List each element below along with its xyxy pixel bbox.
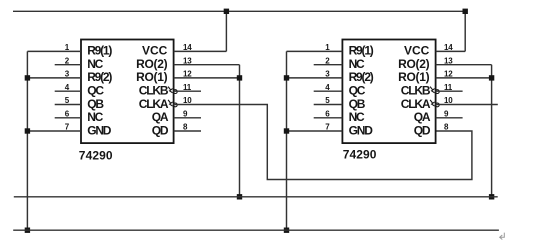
IC U1 74290 body xyxy=(81,40,174,144)
svg-text:QB: QB xyxy=(349,97,366,111)
wire U1 pin 6 NC stub xyxy=(55,117,81,119)
svg-text:VCC: VCC xyxy=(142,44,168,58)
wire U1 pin 5 QB stub xyxy=(55,104,81,106)
wire U1 pin 1 R9(1) xyxy=(27,50,81,52)
wire U2 pin10 CLKA stub xyxy=(436,104,498,106)
wire U2 pin 4 QC stub xyxy=(314,90,343,92)
svg-text:VCC: VCC xyxy=(404,44,430,58)
IC U2 74290 body xyxy=(342,40,435,144)
wire U1 pin12 RO(1) xyxy=(174,77,240,79)
wire U2 pin 6 NC stub xyxy=(314,117,343,119)
wire U1 left bus (R9/GND net) x=27.4 xyxy=(26,51,28,230)
wire U1 pin 8 stub xyxy=(174,130,201,132)
svg-text:CLKB: CLKB xyxy=(139,84,169,98)
wire U2 QD pin8 to U1 CLKA pin10 xyxy=(174,105,472,180)
svg-text:NC: NC xyxy=(87,110,103,124)
wire U1 pin 4 QC stub xyxy=(55,90,81,92)
svg-text:NC: NC xyxy=(87,57,103,71)
svg-text:74290: 74290 xyxy=(343,148,377,162)
wire U2 pin12 RO(1) xyxy=(436,77,492,79)
svg-text:QA: QA xyxy=(414,110,431,124)
wire U1 pin 9 stub xyxy=(174,117,201,119)
svg-text:QB: QB xyxy=(87,97,104,111)
wire U1 pin14 VCC stub xyxy=(174,50,227,52)
svg-text:QC: QC xyxy=(87,84,104,98)
svg-text:R9(2): R9(2) xyxy=(349,70,374,84)
U1 clock wedge pin 11 xyxy=(168,87,177,94)
wire U2 pin 2 NC stub xyxy=(314,64,343,66)
wire U2 pin 1 R9(1) xyxy=(287,50,343,52)
wire U2 VCC riser xyxy=(464,11,466,51)
svg-text:74290: 74290 xyxy=(79,149,113,163)
wire U2 left bus (R9/GND net) x=286.5 xyxy=(286,51,288,230)
svg-text:R9(1): R9(1) xyxy=(349,44,374,58)
U2 clock wedge pin 11 xyxy=(430,87,439,94)
wire U2 pin 3 R9(2) xyxy=(287,77,343,79)
U1 clock wedge pin 10 xyxy=(168,100,177,107)
wire reset rail (RO bus) xyxy=(14,196,498,198)
junction U2 pin12 to RO drop xyxy=(489,75,494,80)
wire U2 pin 5 QB stub xyxy=(314,104,343,106)
svg-text:R9(1): R9(1) xyxy=(87,44,112,58)
svg-text:GND: GND xyxy=(349,123,374,137)
junction U1 pin12 to RO drop xyxy=(237,75,242,80)
junction U1 pin3 on bus xyxy=(25,75,30,80)
junction U2 pin3 on bus xyxy=(284,75,289,80)
junction U2 bus to ground rail xyxy=(284,228,289,233)
wire U1 pin 3 R9(2) xyxy=(27,77,81,79)
junction U1 pin7 on bus xyxy=(25,128,30,133)
svg-text:RO(2): RO(2) xyxy=(398,57,429,71)
wire U2 pin13 RO(2) xyxy=(436,64,492,66)
svg-text:CLKB: CLKB xyxy=(401,84,431,98)
svg-text:NC: NC xyxy=(349,110,365,124)
junction U1 RO drop to reset rail xyxy=(237,194,242,199)
wire U1 pin 7 GND xyxy=(27,130,81,132)
junction U1 bus to ground rail xyxy=(25,228,30,233)
svg-text:RO(2): RO(2) xyxy=(136,57,167,71)
wire U1 pin 11 stub xyxy=(174,90,201,92)
junction U2 pin7 on bus xyxy=(284,128,289,133)
svg-text:QC: QC xyxy=(349,84,366,98)
svg-text:RO(1): RO(1) xyxy=(136,70,167,84)
VCC top bus xyxy=(13,10,465,12)
svg-text:NC: NC xyxy=(349,57,365,71)
wire U2 pin 7 GND xyxy=(287,130,343,132)
svg-text:QD: QD xyxy=(414,123,431,137)
svg-text:R9(2): R9(2) xyxy=(87,70,112,84)
paragraph return mark xyxy=(500,233,505,240)
svg-text:RO(1): RO(1) xyxy=(398,70,429,84)
wire U1 RO net drop xyxy=(239,65,241,197)
wire U2 pin 9 stub xyxy=(436,117,463,119)
wire ground rail (R9/GND bus) xyxy=(13,229,499,231)
U2 clock wedge pin 10 xyxy=(430,100,439,107)
wire U2 pin14 VCC stub xyxy=(436,50,466,52)
wire U1 VCC riser xyxy=(225,11,227,51)
svg-text:QA: QA xyxy=(152,110,169,124)
wire U2 pin 11 stub xyxy=(436,90,463,92)
svg-text:CLKA: CLKA xyxy=(139,97,169,111)
junction U1 VCC on top bus xyxy=(224,9,229,14)
wire U1 pin 2 NC stub xyxy=(55,64,81,66)
svg-text:QD: QD xyxy=(152,123,169,137)
wire U2 RO net drop xyxy=(491,65,493,197)
svg-text:CLKA: CLKA xyxy=(401,97,431,111)
svg-text:GND: GND xyxy=(87,123,112,137)
wire U1 pin13 RO(2) xyxy=(174,64,240,66)
junction U2 VCC at top bus end xyxy=(463,9,468,14)
junction U2 RO drop to reset rail xyxy=(489,194,494,199)
